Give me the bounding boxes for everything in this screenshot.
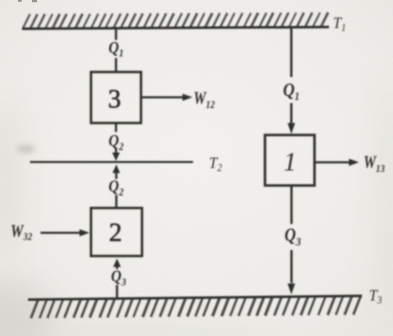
svg-text:2: 2 xyxy=(109,218,122,247)
svg-text:1: 1 xyxy=(284,148,297,177)
svg-text:3: 3 xyxy=(108,85,121,114)
